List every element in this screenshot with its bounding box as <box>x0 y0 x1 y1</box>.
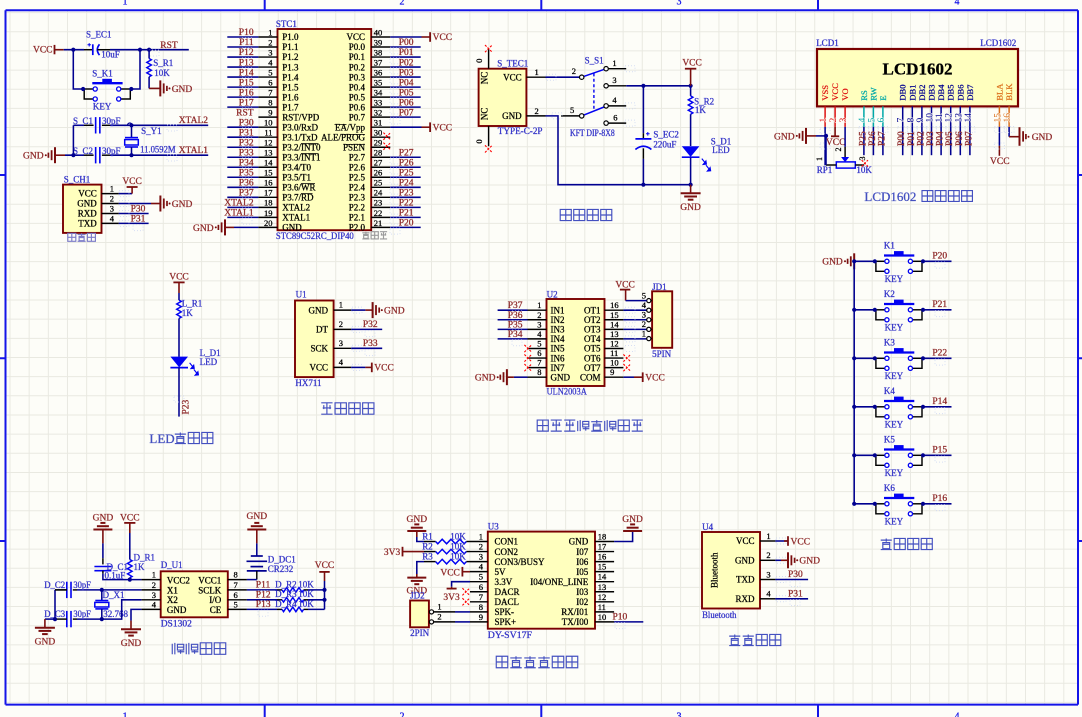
svg-text:VCC: VCC <box>736 536 755 546</box>
svg-text:2: 2 <box>268 37 272 47</box>
pin 13 U2 <box>605 338 624 340</box>
wire U4 pin3 P30 <box>775 579 808 581</box>
svg-text:P0.0: P0.0 <box>349 42 366 52</box>
pin 2 U2 <box>528 319 547 321</box>
ground GND (crystal) <box>23 147 65 163</box>
wire U4 pin4 P31 <box>775 598 808 600</box>
svg-text:OT3: OT3 <box>584 325 601 335</box>
svg-text:14: 14 <box>610 319 619 329</box>
svg-text:P20: P20 <box>399 219 414 229</box>
ground GND (keys) <box>822 253 854 269</box>
svg-text:GND: GND <box>309 305 329 315</box>
svg-text:10K: 10K <box>856 165 872 175</box>
battery D_DC1 CR232 <box>247 543 296 579</box>
svg-text:GND: GND <box>1032 133 1053 143</box>
pin 2 JD1 <box>651 328 652 330</box>
svg-text:OT4: OT4 <box>584 334 601 344</box>
power port VCC (U2 COM) <box>643 372 665 383</box>
svg-text:15: 15 <box>598 562 607 572</box>
power port VCC (reset) <box>33 45 64 55</box>
svg-text:P2.0: P2.0 <box>349 223 366 233</box>
junction XTAL2/crystal <box>129 123 133 127</box>
wire GND rail power <box>546 116 691 185</box>
svg-text:2: 2 <box>400 0 405 8</box>
junction C reset <box>147 48 151 52</box>
pin 7 STC1 P1.6 <box>258 96 277 98</box>
svg-text:GND: GND <box>193 224 214 234</box>
svg-text:2: 2 <box>834 148 843 152</box>
svg-text:KEY: KEY <box>93 102 112 112</box>
svg-text:P16: P16 <box>239 88 254 98</box>
ground GND (LCD right) <box>1020 127 1053 146</box>
title LCD display module <box>864 189 972 204</box>
svg-text:4: 4 <box>612 95 617 105</box>
resistor L_R1 1K <box>177 293 203 357</box>
pin 18 U3 <box>595 541 614 543</box>
wire U2 OT4 to JD1 <box>623 338 646 340</box>
svg-text:P15: P15 <box>932 446 947 456</box>
svg-text:PSEN: PSEN <box>343 142 366 152</box>
pin 7 U3 <box>470 601 488 603</box>
svg-text:K4: K4 <box>884 386 895 396</box>
svg-text:OT2: OT2 <box>584 315 601 325</box>
svg-text:IN1: IN1 <box>551 305 565 315</box>
svg-text:IN7: IN7 <box>551 363 565 373</box>
svg-text:D_R2: D_R2 <box>275 579 297 589</box>
svg-text:0: 0 <box>474 59 484 63</box>
svg-text:11: 11 <box>598 602 606 612</box>
svg-text:P23: P23 <box>181 399 191 414</box>
svg-text:VCC: VCC <box>346 32 365 42</box>
svg-text:3: 3 <box>339 338 343 348</box>
svg-text:1: 1 <box>152 570 156 580</box>
wire U3 pin10 P10 <box>614 621 643 623</box>
svg-text:RX/I01: RX/I01 <box>561 607 588 617</box>
svg-text:VCC: VCC <box>830 83 840 101</box>
svg-text:P03: P03 <box>399 68 414 78</box>
svg-text:BLK: BLK <box>1004 83 1014 101</box>
junction key bus K5 <box>852 453 856 457</box>
svg-text:28: 28 <box>374 148 383 158</box>
power port VCC (power circuit) <box>682 58 702 85</box>
svg-text:1: 1 <box>339 300 343 310</box>
svg-text:7: 7 <box>537 358 541 368</box>
wire bus to K1 <box>854 260 875 262</box>
no-connect U3 pin7 <box>462 598 469 605</box>
LED L_D1 <box>170 348 220 375</box>
svg-text:11: 11 <box>935 113 945 122</box>
svg-text:1: 1 <box>437 601 441 611</box>
svg-text:8: 8 <box>906 118 916 123</box>
wire K2 out <box>923 309 952 311</box>
potentiometer RP1 10K <box>815 148 872 176</box>
svg-text:2: 2 <box>572 66 576 76</box>
pin 4 JD1 <box>651 309 652 311</box>
svg-text:P21: P21 <box>399 209 414 219</box>
svg-text:LCD1602: LCD1602 <box>883 60 953 79</box>
svg-text:RST/VPD: RST/VPD <box>282 112 320 122</box>
svg-text:ALE/PROG: ALE/PROG <box>321 132 366 142</box>
no-connect U2 pin5 <box>524 345 531 352</box>
pin 25 STC1 P2.4 <box>371 186 390 188</box>
wire LCD pin6 <box>882 127 884 155</box>
pin 12 U3 <box>595 601 614 603</box>
pin 1 JD1 <box>651 338 652 340</box>
pin 12 U2 <box>605 347 624 349</box>
pin 20 STC1 GND <box>258 226 277 228</box>
svg-text:14: 14 <box>964 113 974 123</box>
power port VCC (U3 5V) <box>440 567 470 579</box>
wire U2 pin2 P36 <box>498 319 528 321</box>
svg-text:XTAL2: XTAL2 <box>224 199 254 209</box>
svg-text:IN6: IN6 <box>551 353 565 363</box>
svg-text:GND: GND <box>23 152 44 162</box>
svg-text:10: 10 <box>264 118 273 128</box>
svg-text:15: 15 <box>610 310 619 320</box>
wire cap riser clock <box>54 590 56 619</box>
power port VCC (clock right) <box>315 561 335 581</box>
wire pin20 GND <box>234 226 258 228</box>
wire JD2 pin1 to SPK- <box>434 611 455 613</box>
svg-text:U4: U4 <box>702 522 713 532</box>
pin 15 STC1 P3.5/T1 <box>258 176 277 178</box>
pin 36 STC1 P0.3 <box>371 76 390 78</box>
pin 5 JD1 <box>651 300 652 302</box>
svg-text:P37: P37 <box>239 189 254 199</box>
IC U2 ULN2003A <box>547 289 605 397</box>
svg-text:VO: VO <box>840 88 850 100</box>
wire U2 pin8 GND <box>514 376 528 378</box>
title stepper motor <box>537 420 643 431</box>
wire LED to rail <box>690 158 692 185</box>
pin 17 STC1 P3.7/RD <box>258 196 277 198</box>
svg-text:P10: P10 <box>613 613 628 623</box>
pin 33 STC1 P0.6 <box>371 106 390 108</box>
svg-text:P1.2: P1.2 <box>282 52 298 62</box>
wire LCD VO to pot wiper <box>844 127 846 147</box>
svg-text:RST: RST <box>160 41 178 51</box>
wire pin31 VCC <box>390 126 421 128</box>
svg-text:P3.7/RD: P3.7/RD <box>282 193 314 203</box>
svg-text:SPK-: SPK- <box>495 607 515 617</box>
border zone numbers <box>123 0 960 717</box>
wire gnd to R1 <box>417 537 424 542</box>
svg-text:GND: GND <box>35 638 56 648</box>
svg-text:OT5: OT5 <box>584 344 601 354</box>
svg-text:P31: P31 <box>131 214 146 224</box>
power port 3V3 (U3 3.3V) <box>443 587 460 603</box>
svg-text:1: 1 <box>123 0 128 8</box>
pin 5 S_S1 <box>561 115 580 117</box>
pin 37 STC1 P0.2 <box>371 66 390 68</box>
pin 32 STC1 P0.7 <box>371 116 390 118</box>
ground GND (U3 top-left) <box>407 515 428 537</box>
pushbutton K2 <box>873 289 925 332</box>
svg-text:KEY: KEY <box>885 274 904 284</box>
svg-text:GND: GND <box>822 258 843 268</box>
pin 9 STC1 RST/VPD <box>258 116 277 118</box>
junction clock vcc 1 <box>322 588 326 592</box>
svg-text:VSS: VSS <box>820 85 830 101</box>
svg-text:R3: R3 <box>422 551 433 561</box>
pin 38 STC1 P0.1 <box>371 56 390 58</box>
wire X2 row <box>102 600 142 619</box>
svg-text:5V: 5V <box>495 567 507 577</box>
svg-text:I06: I06 <box>576 557 588 567</box>
resistor D_R1 1K <box>128 533 156 580</box>
svg-text:P10: P10 <box>239 28 254 38</box>
svg-text:5: 5 <box>642 290 646 300</box>
pin 13 STC1 P3.3/INT1 <box>258 156 277 158</box>
pin 8 U3 <box>470 611 488 613</box>
pushbutton K1 <box>873 241 925 284</box>
svg-text:GND: GND <box>680 203 701 213</box>
wire U2 pin4 P34 <box>498 338 528 340</box>
svg-text:P02: P02 <box>916 131 926 146</box>
svg-text:P30: P30 <box>788 570 803 580</box>
capacitor S_EC1 10uF <box>86 29 120 59</box>
pin 4 S_CH1 <box>102 222 119 224</box>
wire LCD pin8 <box>911 127 913 155</box>
pin 4 STC1 P1.3 <box>258 66 277 68</box>
svg-text:12: 12 <box>598 592 607 602</box>
svg-text:XTAL1: XTAL1 <box>224 209 254 219</box>
power port VCC (U4) <box>788 536 810 547</box>
svg-text:STC89C52RC_DIP40: STC89C52RC_DIP40 <box>276 232 354 242</box>
svg-text:DB2: DB2 <box>917 85 927 101</box>
svg-text:R2: R2 <box>422 541 433 551</box>
wire X1 row <box>77 589 141 591</box>
svg-text:P04: P04 <box>399 78 414 88</box>
pin 13 U3 <box>595 591 614 593</box>
svg-text:TX/I00: TX/I00 <box>562 617 589 627</box>
pin 3 U2 <box>528 328 547 330</box>
wire K3 out <box>923 357 952 359</box>
junction power D <box>689 183 693 187</box>
svg-text:RXD: RXD <box>78 209 98 219</box>
pin 5 D_U1 <box>228 608 247 610</box>
wire LCD pin7 <box>902 127 904 155</box>
svg-text:VCC: VCC <box>826 138 846 148</box>
ground GND (LCD left) <box>774 128 826 144</box>
pin 1 D_U1 <box>141 579 160 581</box>
svg-text:10K: 10K <box>450 541 466 551</box>
ground GND (U2) <box>475 369 507 385</box>
title key circuit <box>881 538 933 549</box>
pin 10 U2 <box>605 367 624 369</box>
svg-text:P26: P26 <box>868 131 878 146</box>
svg-text:P3.4/T0: P3.4/T0 <box>282 162 311 172</box>
junction riser <box>71 153 75 157</box>
svg-text:3: 3 <box>268 47 272 57</box>
svg-text:10K: 10K <box>298 579 314 589</box>
svg-text:S_EC2: S_EC2 <box>653 130 679 140</box>
svg-text:27: 27 <box>374 158 383 168</box>
svg-text:P25: P25 <box>399 168 414 178</box>
svg-text:S_K1: S_K1 <box>92 68 113 78</box>
svg-text:24: 24 <box>374 188 383 198</box>
pin 18 STC1 XTAL2 <box>258 206 277 208</box>
svg-text:P1.6: P1.6 <box>282 92 299 102</box>
svg-text:5: 5 <box>234 599 238 609</box>
wire pin8 to battery <box>247 579 257 581</box>
pin 10 U3 <box>595 621 614 623</box>
wire D_U1 pin5 P13 <box>247 608 277 610</box>
svg-text:2: 2 <box>400 712 405 717</box>
wire key to RST node <box>131 50 140 89</box>
crystal D_X1 32.768 <box>95 590 129 619</box>
svg-text:3.3V: 3.3V <box>495 577 513 587</box>
svg-text:S_R1: S_R1 <box>153 58 173 68</box>
svg-text:TYPE-C-2P: TYPE-C-2P <box>498 126 543 136</box>
svg-text:P13: P13 <box>239 58 254 68</box>
svg-text:4: 4 <box>955 712 960 717</box>
wire LCD pin14 <box>969 127 971 155</box>
pin 2 STC1 P1.1 <box>258 46 277 48</box>
pin 5 U2 <box>528 347 547 349</box>
pin 3 S_CH1 <box>102 213 119 215</box>
resistor S_R2 1K <box>688 86 714 146</box>
svg-text:U1: U1 <box>296 290 307 300</box>
capacitor D_C3 30pF <box>44 609 91 627</box>
svg-text:XTAL1: XTAL1 <box>179 146 209 156</box>
svg-text:12: 12 <box>610 338 619 348</box>
svg-text:P23: P23 <box>399 189 414 199</box>
wire S_R1 to ground <box>149 87 160 89</box>
pin 8 U2 <box>528 376 547 378</box>
svg-text:GND: GND <box>799 557 820 567</box>
wire U3 GND pin18 <box>614 531 633 542</box>
pin 3 D_U1 <box>141 599 160 601</box>
pin 6 U3 <box>470 591 488 593</box>
svg-text:3: 3 <box>858 157 867 161</box>
no-connect U2 pin11 <box>623 354 630 361</box>
wire to S_EC2 <box>642 86 644 133</box>
svg-text:5: 5 <box>479 572 483 582</box>
svg-text:Bluetooth: Bluetooth <box>710 552 720 588</box>
svg-text:10K: 10K <box>298 589 314 599</box>
svg-text:25: 25 <box>374 178 383 188</box>
svg-text:P22: P22 <box>399 199 414 209</box>
resistor R3 10K (U3) <box>422 551 470 564</box>
svg-text:22: 22 <box>374 208 383 218</box>
svg-text:XTAL2: XTAL2 <box>282 203 310 213</box>
power port VCC (pin31) <box>430 122 452 133</box>
svg-text:10K: 10K <box>154 68 170 78</box>
pin 1 U3 <box>470 541 488 543</box>
svg-text:P2.4: P2.4 <box>349 183 366 193</box>
pin 23 STC1 P2.2 <box>371 206 390 208</box>
svg-text:K3: K3 <box>884 338 895 348</box>
svg-text:3V3: 3V3 <box>443 593 460 603</box>
junction XTAL1/crystal <box>129 153 133 157</box>
svg-text:7: 7 <box>268 88 272 98</box>
power port VCC (U1) <box>372 363 394 374</box>
svg-text:DB4: DB4 <box>936 84 946 101</box>
svg-text:P12: P12 <box>256 591 271 601</box>
svg-text:15: 15 <box>993 113 1003 123</box>
svg-text:D_X1: D_X1 <box>103 590 125 600</box>
no-connect RP1 pin3 <box>862 160 868 166</box>
svg-text:18: 18 <box>598 532 607 542</box>
svg-text:I04/ONE_LINE: I04/ONE_LINE <box>530 577 588 587</box>
svg-text:P3.2/INT0: P3.2/INT0 <box>282 142 321 152</box>
junction power A <box>641 84 645 88</box>
IC U1 HX711 <box>295 290 334 388</box>
svg-text:5: 5 <box>867 118 877 123</box>
wire VCC to JD1 pin5 <box>626 300 647 302</box>
svg-text:IN4: IN4 <box>551 334 565 344</box>
ground GND (clock mid) <box>121 621 142 650</box>
svg-text:6: 6 <box>268 78 272 88</box>
pin 2 U4 <box>760 559 775 561</box>
wire D_U1 pin6 P12 <box>247 599 277 601</box>
power port 3V3 (R2) <box>384 547 424 558</box>
svg-text:2: 2 <box>152 580 156 590</box>
title music player circuit <box>496 656 577 667</box>
svg-text:2PIN: 2PIN <box>410 628 430 638</box>
wire XTAL2 net <box>73 124 84 126</box>
ground GND (U1) <box>373 302 405 318</box>
wire K1 out <box>923 260 952 262</box>
pin 7 U2 <box>528 367 547 369</box>
svg-text:KEY: KEY <box>885 322 904 332</box>
wire K4 out <box>923 406 952 408</box>
svg-text:TXD: TXD <box>78 218 97 228</box>
svg-text:GND: GND <box>77 199 97 209</box>
pin 6 STC1 P1.5 <box>258 86 277 88</box>
svg-text:15: 15 <box>264 168 273 178</box>
pushbutton K6 <box>873 483 925 526</box>
svg-text:6: 6 <box>537 348 541 358</box>
wire gnd to D_C1 <box>102 543 104 558</box>
svg-text:GND: GND <box>735 556 755 566</box>
svg-text:DT: DT <box>316 325 328 335</box>
svg-text:P3.5/T1: P3.5/T1 <box>282 172 311 182</box>
pin 14 U2 <box>605 328 624 330</box>
svg-text:18: 18 <box>264 198 273 208</box>
pin 7 D_U1 <box>228 589 247 591</box>
svg-text:30pF: 30pF <box>73 609 91 619</box>
svg-text:XTAL2: XTAL2 <box>179 116 209 126</box>
svg-text:S_Y1: S_Y1 <box>141 126 162 136</box>
svg-text:30pF: 30pF <box>102 116 121 126</box>
svg-text:P06: P06 <box>955 131 965 146</box>
IC STC1 STC89C52RC_DIP40 <box>276 19 371 242</box>
junction clock vcc 2 <box>322 598 326 602</box>
wire U4 pin1 VCC <box>775 540 788 542</box>
svg-text:HX711: HX711 <box>295 378 321 388</box>
pin 24 STC1 P2.3 <box>371 196 390 198</box>
svg-text:IN2: IN2 <box>551 315 565 325</box>
svg-text:35: 35 <box>374 78 383 88</box>
label download port <box>68 233 96 241</box>
svg-text:KEY: KEY <box>885 468 904 478</box>
pin 1 S_TEC1 VCC <box>526 76 545 78</box>
svg-text:13: 13 <box>954 113 964 123</box>
wire bus to K5 <box>854 454 875 456</box>
svg-text:P33: P33 <box>363 339 378 349</box>
svg-text:10K: 10K <box>298 599 314 609</box>
pin 1 STC1 P1.0 <box>258 36 277 38</box>
svg-text:IN3: IN3 <box>551 325 565 335</box>
svg-text:1K: 1K <box>134 562 146 572</box>
svg-text:P1.4: P1.4 <box>282 72 299 82</box>
svg-text:KEY: KEY <box>885 516 904 526</box>
pushbutton K4 <box>873 386 925 429</box>
svg-text:220uF: 220uF <box>653 140 676 150</box>
svg-text:P22: P22 <box>932 349 947 359</box>
